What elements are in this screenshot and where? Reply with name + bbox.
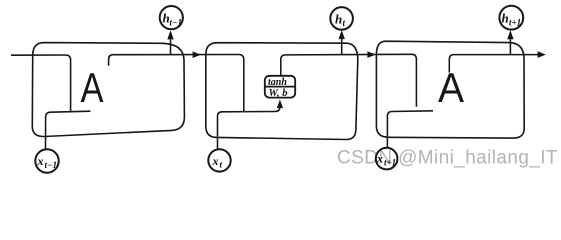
watermark CSDN [337,147,558,168]
node h(t-1) circle [160,6,183,29]
arrowhead to h(t) [339,30,345,39]
label A of cell A3 [438,64,464,111]
cell A2 outline [206,43,358,140]
arrowhead into cell A3 [367,51,375,58]
node h(t+1) circle [499,6,523,30]
arrowhead output right edge [538,51,546,58]
svg-text:A: A [438,64,464,111]
wire x(t) input into cell A2 [218,106,280,149]
tanh W,b box [265,76,295,98]
node x(t) circle [208,149,230,171]
node x(t+1) circle [376,148,398,170]
wire branch up to node h(t+1) [509,37,511,54]
svg-text:tanh: tanh [268,77,287,88]
arrowhead to h(t-1) [167,30,173,39]
svg-text:t−1: t−1 [170,18,182,28]
svg-text:t−1: t−1 [45,160,57,170]
wire cell A1 output trunk to cell A2 [109,55,244,112]
wire x(t+1) input into cell A3 [387,111,433,148]
svg-text:t: t [343,18,346,28]
svg-text:CSDN @Mini_hailang_IT: CSDN @Mini_hailang_IT [337,147,558,168]
label h(t+1) [502,11,522,28]
svg-text:h: h [335,11,342,26]
svg-text:t: t [220,160,223,170]
wire branch up to node h(t-1) [170,38,172,55]
svg-text:t+1: t+1 [384,158,396,168]
arrowhead to h(t+1) [507,30,513,39]
wire tanh box output trunk to cell A3 [281,54,417,107]
label h(t) [335,11,346,28]
svg-text:x: x [212,154,219,168]
cell A3 outline [376,41,524,138]
svg-text:x: x [376,152,383,166]
svg-text:h: h [502,11,509,26]
label tanh [268,77,288,99]
wire h(t-2) lead-in to cell A1 [11,55,71,112]
label x(t) [212,154,223,170]
svg-text:W, b: W, b [269,88,288,99]
label x(t-1) [37,154,57,170]
label h(t-1) [163,11,182,28]
svg-text:t+1: t+1 [509,18,521,28]
wire branch up to node h(t) [341,37,343,55]
wire cell A3 output to edge [449,55,538,73]
node h(t) circle [330,7,353,30]
svg-text:A: A [81,64,104,111]
node x(t-1) circle [35,149,58,172]
arrowhead into cell A2 [193,51,201,58]
arrowhead into tanh box [277,100,283,108]
cell A1 outline [32,43,184,137]
label A of cell A1 [81,64,104,111]
label x(t+1) [376,152,396,168]
svg-text:x: x [37,154,44,168]
wire x(t-1) input into cell A1 [46,111,91,149]
